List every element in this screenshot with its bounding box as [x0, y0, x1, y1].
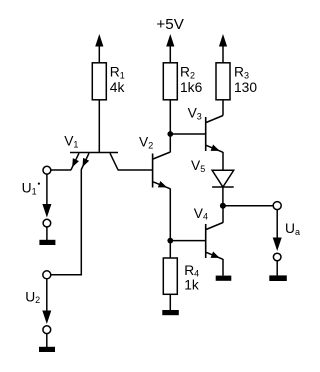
wire V2 collector to node A	[169, 134, 171, 152]
wire Ua to ground	[276, 261, 278, 276]
wire node C to V4 base	[170, 240, 205, 242]
node Ua output terminal	[273, 202, 281, 210]
wire U1 to ground	[46, 227, 48, 240]
ground (Ua)	[269, 275, 287, 281]
wire V3 emitter to diode V5	[222, 152, 224, 170]
transistor V1 (multi-emitter input)	[70, 153, 118, 170]
wire node A to V3 base	[170, 133, 205, 135]
svg-text:+5V: +5V	[156, 16, 184, 33]
svg-text:R3: R3	[234, 65, 249, 81]
voltage arrow Ua	[273, 210, 282, 251]
wire V1 emitter1 to U1 terminal	[51, 169, 72, 171]
wire V1 emitter2 down to U2 terminal	[51, 169, 82, 275]
node U1 input terminal	[43, 166, 51, 174]
ground (V4 emitter)	[216, 276, 232, 281]
output wire node B to Ua terminal	[223, 205, 273, 207]
ground (U1)	[39, 240, 55, 245]
node A (V2 collector / R2 / V3 base)	[167, 131, 173, 137]
terminal circle U1 bottom	[43, 219, 51, 227]
svg-text:R4: R4	[184, 263, 199, 279]
ground (R4)	[162, 310, 179, 315]
supply arrow above R3	[219, 34, 227, 63]
diode V5	[212, 170, 234, 187]
wire U2 to ground	[46, 334, 48, 347]
svg-text:130: 130	[234, 80, 257, 95]
svg-text:1k: 1k	[184, 278, 199, 293]
ground (U2)	[39, 347, 55, 352]
wire node C to R4	[169, 241, 171, 258]
node B (output node)	[220, 203, 226, 209]
terminal circle U2 bottom	[43, 326, 51, 334]
svg-text:R2: R2	[180, 65, 195, 81]
svg-text:R1: R1	[110, 65, 125, 81]
terminal circle Ua bottom	[273, 253, 281, 261]
supply arrow above R2	[166, 34, 174, 63]
wire V4 emitter to ground	[222, 259, 224, 276]
prime dot after U1	[38, 183, 40, 185]
svg-text:1k6: 1k6	[180, 80, 203, 95]
wire R3 to V3 collector	[222, 100, 224, 116]
resistor R4	[163, 258, 177, 294]
node U2 input terminal	[43, 271, 51, 279]
supply arrow above R1	[95, 34, 103, 63]
wire V2 emitter to node C	[169, 189, 171, 241]
node C (V2 emitter / R4 / V4 base)	[167, 238, 173, 244]
transistor V2	[153, 152, 171, 189]
wire R4 to ground	[169, 294, 171, 310]
svg-text:Ua: Ua	[285, 221, 300, 237]
svg-text:4k: 4k	[110, 80, 125, 95]
voltage arrow U1	[42, 174, 51, 217]
svg-text:V1: V1	[64, 134, 78, 150]
transistor V3	[206, 116, 223, 153]
resistor R2	[163, 63, 177, 100]
wire V1 collector to V2 base	[118, 169, 153, 171]
transistor V4	[206, 223, 223, 260]
svg-text:V4: V4	[194, 206, 208, 222]
resistor R1	[92, 63, 106, 100]
svg-text:V5: V5	[191, 158, 205, 174]
resistor R3	[216, 63, 230, 100]
voltage arrow U2	[42, 279, 51, 324]
wire V4 collector to node B	[222, 206, 224, 223]
svg-text:V2: V2	[139, 135, 153, 151]
wire R2 to node A	[169, 100, 171, 134]
wire V5 cathode to node B	[222, 187, 224, 206]
svg-text:U1: U1	[22, 181, 37, 197]
wire R1 to V1 base	[98, 100, 100, 153]
svg-text:V3: V3	[188, 106, 202, 122]
svg-text:U2: U2	[25, 289, 40, 305]
